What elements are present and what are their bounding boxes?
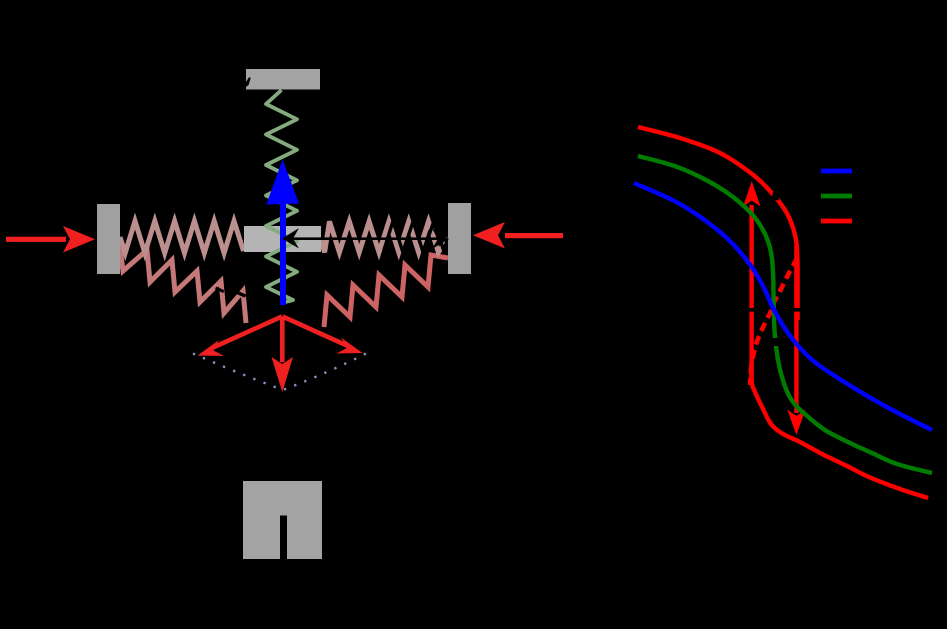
red upper branch [638,127,798,320]
black label mark overlapping top support [246,78,251,88]
red jump-up arrow [743,181,760,383]
right red force arrow [473,222,563,249]
black dashed guide cut marks [748,308,758,312]
black displacement double arrow [282,228,449,249]
left horizontal spring [120,221,244,253]
central mass [244,226,321,252]
bottom block with slot [243,481,322,559]
left diagonal spring [119,240,246,323]
blue force arrow [266,160,299,306]
red unstable dashed branch [750,258,797,385]
black tick mark on right diagonal spring [367,278,376,284]
top support block [246,69,320,90]
green vertical spring [266,90,297,303]
left wall [97,204,120,274]
right wall [448,203,471,274]
blue curve [634,183,932,430]
red jump-down arrow [787,245,805,435]
black tick marks on left diagonal spring [215,287,224,293]
green curve [638,156,932,473]
right diagonal spring [324,255,448,327]
dotted arc [193,353,368,391]
radiating red arrows [198,317,363,393]
left red force arrow [6,226,95,253]
black reference spring overlay (right) [384,221,448,252]
right horizontal spring [321,221,448,252]
red lower branch [751,370,928,498]
legend swatches [821,169,852,174]
